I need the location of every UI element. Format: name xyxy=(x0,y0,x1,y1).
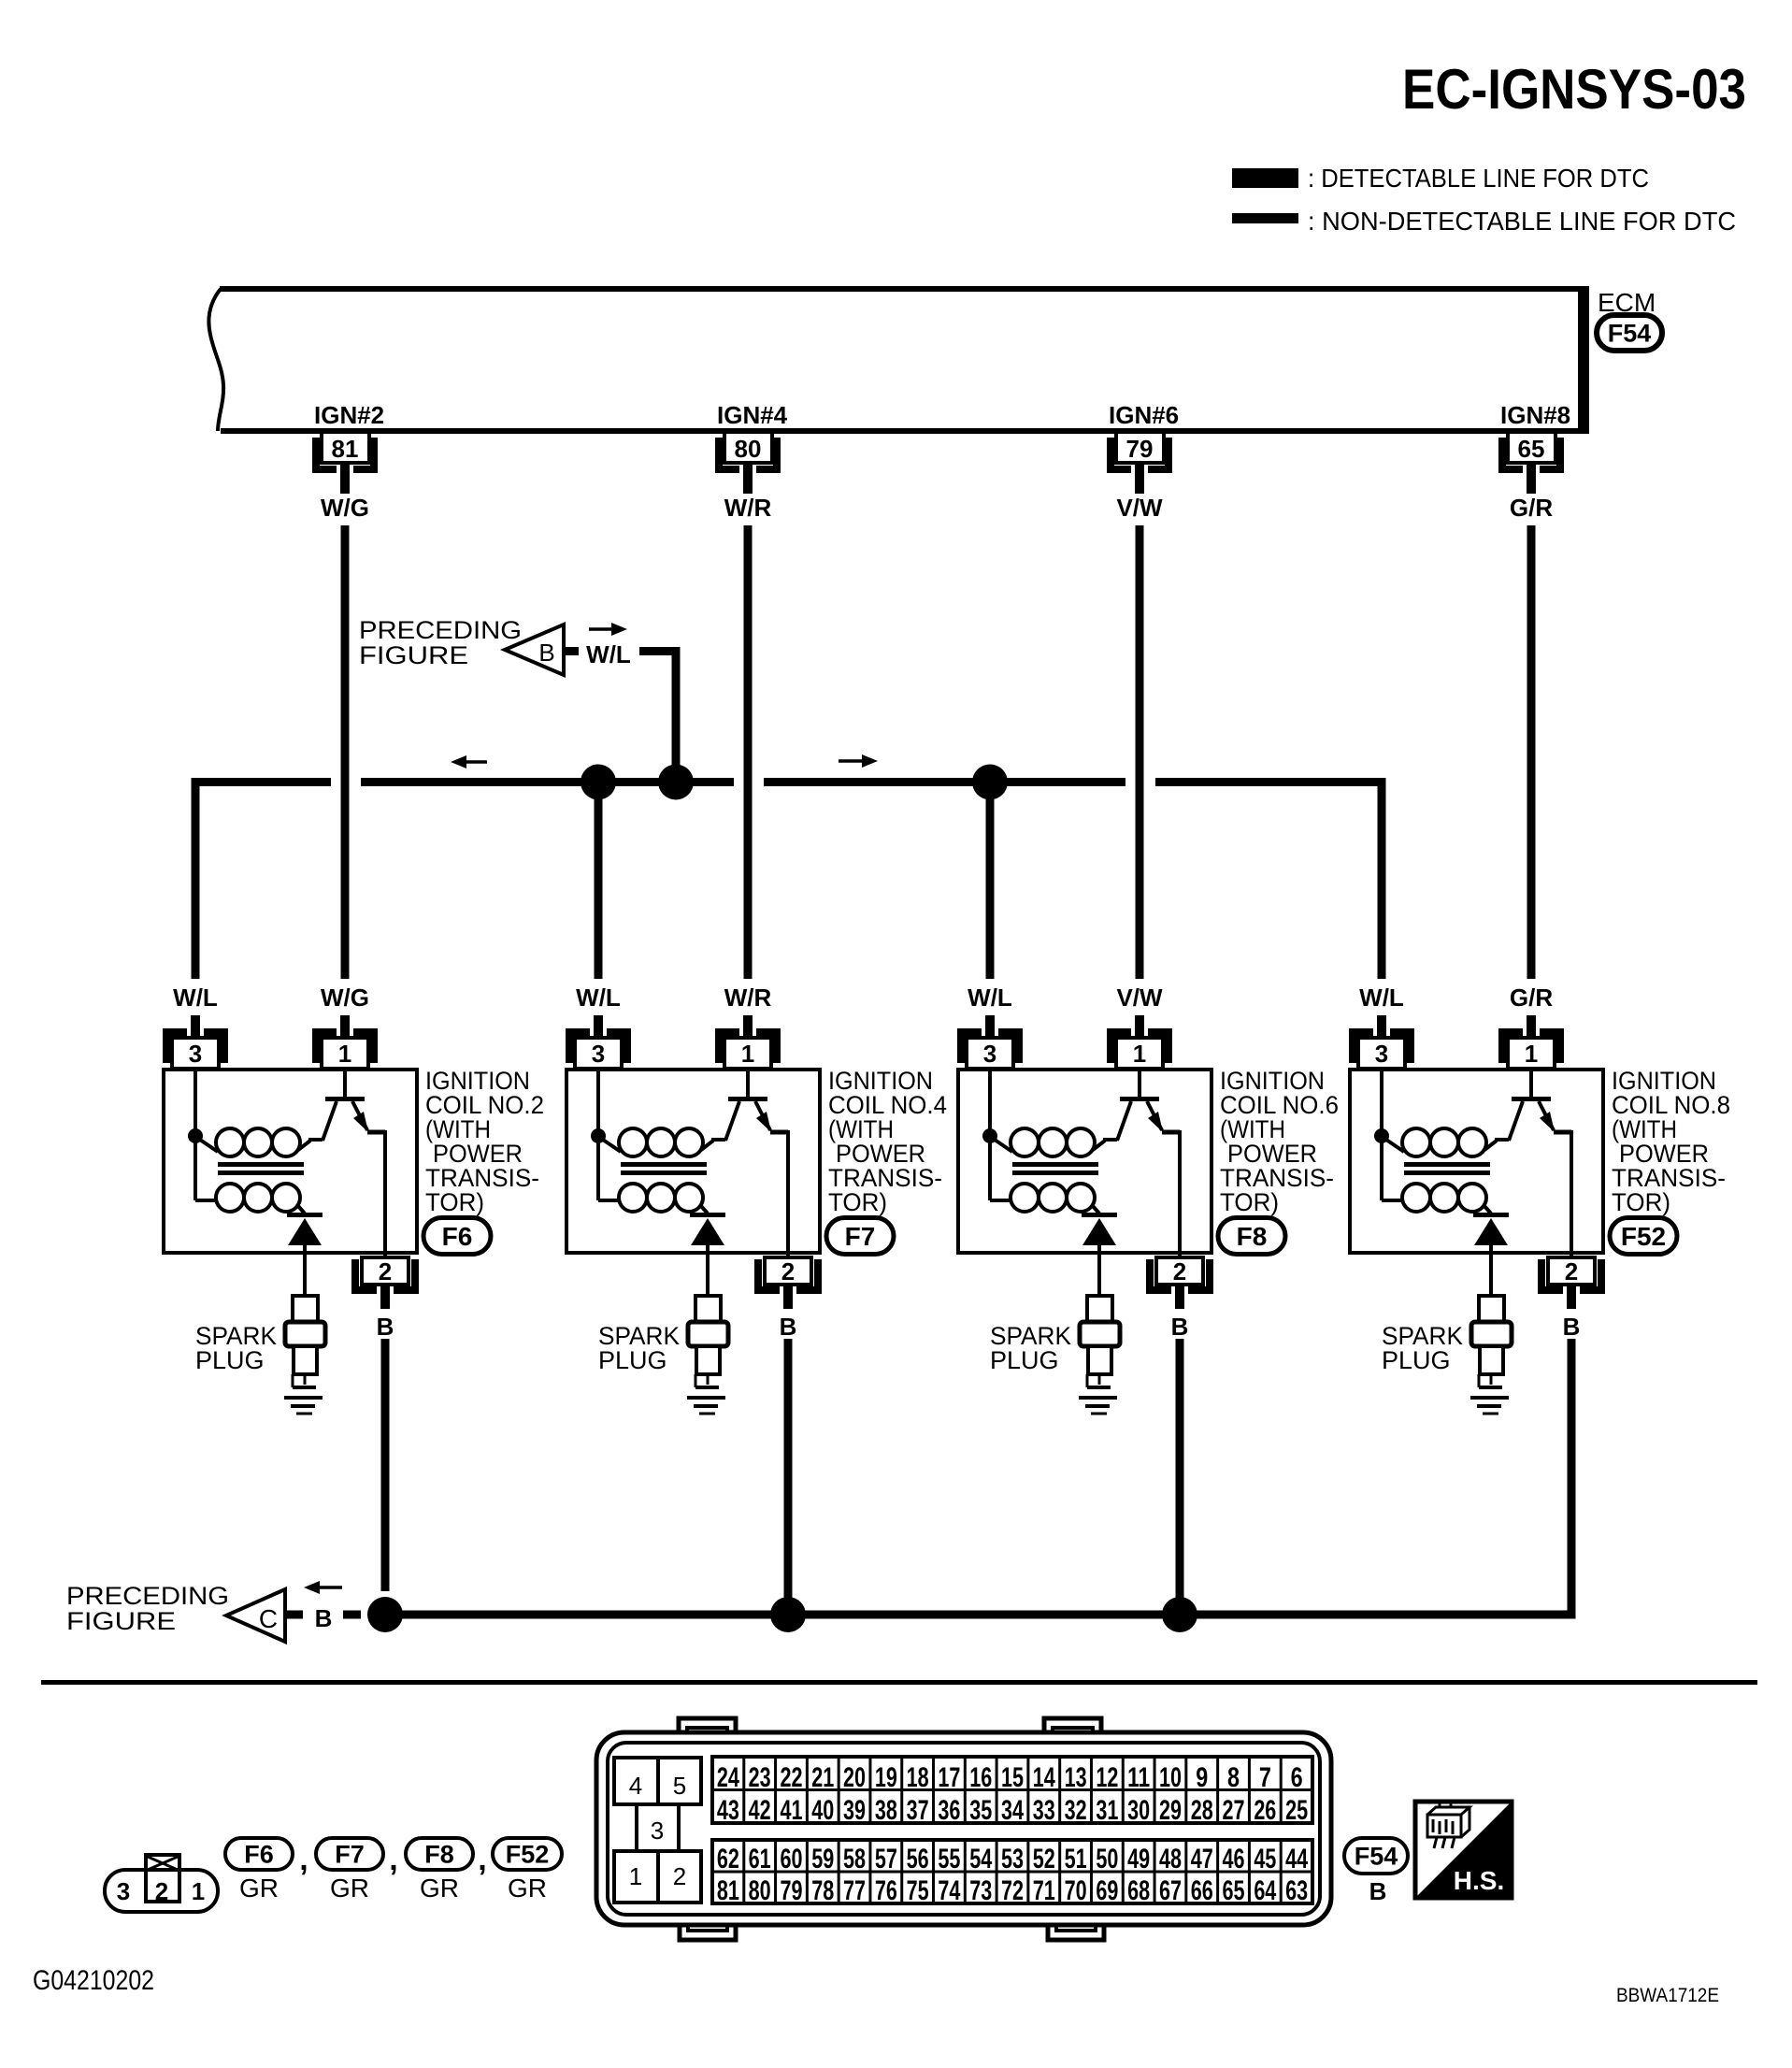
svg-text:65: 65 xyxy=(1518,435,1545,463)
svg-text:1: 1 xyxy=(741,1040,754,1068)
svg-text:2: 2 xyxy=(155,1877,168,1905)
svg-text:14: 14 xyxy=(1033,1762,1055,1793)
svg-text:IGN#4: IGN#4 xyxy=(717,401,788,429)
svg-text:GR: GR xyxy=(330,1874,369,1903)
svg-text:3: 3 xyxy=(117,1877,130,1905)
svg-text:20: 20 xyxy=(843,1762,866,1793)
svg-text:4: 4 xyxy=(629,1772,642,1800)
svg-text:38: 38 xyxy=(875,1795,897,1826)
svg-text:48: 48 xyxy=(1159,1844,1182,1874)
svg-text:BBWA1712E: BBWA1712E xyxy=(1616,1985,1719,2006)
svg-text:F6: F6 xyxy=(244,1841,274,1869)
svg-text:FIGURE: FIGURE xyxy=(359,641,468,669)
svg-text:B: B xyxy=(315,1604,333,1632)
svg-text:61: 61 xyxy=(749,1844,771,1874)
svg-text:57: 57 xyxy=(875,1844,897,1874)
svg-text:G/R: G/R xyxy=(1510,494,1553,522)
svg-text:23: 23 xyxy=(749,1762,771,1793)
svg-text:12: 12 xyxy=(1096,1762,1118,1793)
svg-text:56: 56 xyxy=(907,1844,929,1874)
svg-text:F8: F8 xyxy=(424,1841,454,1869)
svg-text:B: B xyxy=(1369,1877,1387,1905)
svg-text:33: 33 xyxy=(1033,1795,1055,1826)
svg-text:1: 1 xyxy=(338,1040,351,1068)
svg-text:37: 37 xyxy=(907,1795,929,1826)
svg-text:50: 50 xyxy=(1096,1844,1118,1874)
svg-text:79: 79 xyxy=(780,1875,802,1906)
svg-text:21: 21 xyxy=(811,1762,834,1793)
svg-text:F7: F7 xyxy=(845,1222,876,1251)
svg-text:TOR): TOR) xyxy=(1612,1188,1670,1216)
svg-text:IGN#6: IGN#6 xyxy=(1109,401,1179,429)
svg-text:H.S.: H.S. xyxy=(1454,1866,1504,1895)
svg-text:PLUG: PLUG xyxy=(195,1346,265,1374)
svg-text:66: 66 xyxy=(1191,1875,1213,1906)
svg-text:F52: F52 xyxy=(1621,1222,1666,1251)
svg-text:60: 60 xyxy=(780,1844,802,1874)
svg-text:3: 3 xyxy=(1375,1040,1388,1068)
svg-text:PRECEDING: PRECEDING xyxy=(66,1582,229,1610)
svg-text:3: 3 xyxy=(189,1040,202,1068)
svg-text:40: 40 xyxy=(811,1795,834,1826)
svg-text:F6: F6 xyxy=(442,1222,473,1251)
svg-text:78: 78 xyxy=(811,1875,834,1906)
svg-text:62: 62 xyxy=(717,1844,739,1874)
svg-text:45: 45 xyxy=(1254,1844,1276,1874)
svg-text:22: 22 xyxy=(780,1762,802,1793)
svg-text:W/L: W/L xyxy=(1359,984,1404,1012)
svg-text:53: 53 xyxy=(1001,1844,1024,1874)
svg-text:42: 42 xyxy=(749,1795,771,1826)
svg-text:1: 1 xyxy=(192,1877,205,1905)
svg-text:B: B xyxy=(780,1313,797,1341)
svg-text:PRECEDING: PRECEDING xyxy=(359,616,522,644)
svg-text:F52: F52 xyxy=(506,1841,550,1869)
svg-text:TOR): TOR) xyxy=(828,1188,887,1216)
svg-text:52: 52 xyxy=(1033,1844,1055,1874)
svg-text:C: C xyxy=(259,1604,278,1633)
svg-text:17: 17 xyxy=(938,1762,960,1793)
svg-text:47: 47 xyxy=(1191,1844,1213,1874)
svg-text:68: 68 xyxy=(1127,1875,1150,1906)
svg-text:11: 11 xyxy=(1127,1762,1150,1793)
svg-text:13: 13 xyxy=(1065,1762,1087,1793)
svg-text:70: 70 xyxy=(1065,1875,1087,1906)
svg-text:EC-IGNSYS-03: EC-IGNSYS-03 xyxy=(1402,58,1746,121)
svg-text:V/W: V/W xyxy=(1116,984,1163,1012)
svg-text:V/W: V/W xyxy=(1116,494,1163,522)
svg-text:5: 5 xyxy=(673,1772,686,1800)
svg-text:77: 77 xyxy=(843,1875,866,1906)
svg-text:30: 30 xyxy=(1127,1795,1150,1826)
svg-text:58: 58 xyxy=(843,1844,866,1874)
svg-text:1: 1 xyxy=(629,1862,642,1890)
svg-text:: DETECTABLE LINE FOR DTC: : DETECTABLE LINE FOR DTC xyxy=(1308,164,1649,193)
svg-text:76: 76 xyxy=(875,1875,897,1906)
svg-text:GR: GR xyxy=(508,1874,547,1903)
svg-text:10: 10 xyxy=(1159,1762,1182,1793)
svg-text:24: 24 xyxy=(717,1762,739,1793)
svg-text:80: 80 xyxy=(749,1875,771,1906)
svg-text:,: , xyxy=(389,1842,397,1877)
svg-text:39: 39 xyxy=(843,1795,866,1826)
svg-text:PLUG: PLUG xyxy=(598,1346,667,1374)
svg-text:29: 29 xyxy=(1159,1795,1182,1826)
svg-text:: NON-DETECTABLE LINE FOR DTC: : NON-DETECTABLE LINE FOR DTC xyxy=(1308,207,1736,236)
svg-text:54: 54 xyxy=(969,1844,992,1874)
svg-text:73: 73 xyxy=(969,1875,992,1906)
svg-text:TOR): TOR) xyxy=(425,1188,484,1216)
svg-text:16: 16 xyxy=(969,1762,992,1793)
svg-text:W/G: W/G xyxy=(321,984,369,1012)
svg-text:18: 18 xyxy=(907,1762,929,1793)
svg-text:19: 19 xyxy=(875,1762,897,1793)
svg-text:31: 31 xyxy=(1096,1795,1118,1826)
svg-text:GR: GR xyxy=(420,1874,459,1903)
svg-text:44: 44 xyxy=(1285,1844,1308,1874)
svg-text:32: 32 xyxy=(1065,1795,1087,1826)
svg-text:B: B xyxy=(377,1313,394,1341)
svg-text:75: 75 xyxy=(907,1875,929,1906)
svg-text:F54: F54 xyxy=(1608,320,1652,348)
svg-text:F8: F8 xyxy=(1237,1222,1268,1251)
svg-text:26: 26 xyxy=(1254,1795,1276,1826)
svg-text:79: 79 xyxy=(1126,435,1154,463)
svg-text:W/L: W/L xyxy=(968,984,1012,1012)
svg-text:72: 72 xyxy=(1001,1875,1024,1906)
svg-text:W/G: W/G xyxy=(321,494,369,522)
svg-text:80: 80 xyxy=(735,435,762,463)
svg-text:W/R: W/R xyxy=(724,494,772,522)
svg-text:F54: F54 xyxy=(1355,1843,1398,1871)
svg-text:B: B xyxy=(538,639,554,667)
svg-text:7: 7 xyxy=(1259,1762,1271,1793)
svg-text:3: 3 xyxy=(651,1817,664,1845)
svg-text:25: 25 xyxy=(1285,1795,1308,1826)
svg-text:1: 1 xyxy=(1525,1040,1538,1068)
svg-text:FIGURE: FIGURE xyxy=(66,1607,176,1635)
svg-text:3: 3 xyxy=(983,1040,996,1068)
svg-text:81: 81 xyxy=(332,435,359,463)
svg-text:51: 51 xyxy=(1065,1844,1087,1874)
svg-text:46: 46 xyxy=(1223,1844,1245,1874)
svg-text:G/R: G/R xyxy=(1510,984,1553,1012)
svg-text:3: 3 xyxy=(592,1040,605,1068)
svg-text:69: 69 xyxy=(1096,1875,1118,1906)
svg-text:,: , xyxy=(299,1842,308,1877)
svg-text:15: 15 xyxy=(1001,1762,1024,1793)
svg-text:IGN#8: IGN#8 xyxy=(1500,401,1570,429)
svg-text:63: 63 xyxy=(1285,1875,1308,1906)
svg-text:2: 2 xyxy=(379,1257,392,1285)
svg-text:2: 2 xyxy=(673,1862,686,1890)
svg-text:41: 41 xyxy=(780,1795,802,1826)
svg-text:W/R: W/R xyxy=(724,984,772,1012)
svg-text:35: 35 xyxy=(969,1795,992,1826)
svg-text:81: 81 xyxy=(717,1875,739,1906)
svg-text:34: 34 xyxy=(1001,1795,1024,1826)
svg-text:PLUG: PLUG xyxy=(1382,1346,1451,1374)
svg-text:W/L: W/L xyxy=(173,984,218,1012)
svg-text:8: 8 xyxy=(1227,1762,1240,1793)
svg-text:2: 2 xyxy=(781,1257,795,1285)
svg-text:2: 2 xyxy=(1173,1257,1186,1285)
svg-text:55: 55 xyxy=(938,1844,960,1874)
svg-text:64: 64 xyxy=(1254,1875,1276,1906)
svg-text:49: 49 xyxy=(1127,1844,1150,1874)
svg-text:2: 2 xyxy=(1565,1257,1578,1285)
svg-text:59: 59 xyxy=(811,1844,834,1874)
svg-text:IGN#2: IGN#2 xyxy=(314,401,384,429)
svg-text:9: 9 xyxy=(1196,1762,1208,1793)
svg-text:W/L: W/L xyxy=(576,984,621,1012)
svg-text:,: , xyxy=(478,1842,486,1877)
svg-text:1: 1 xyxy=(1133,1040,1146,1068)
svg-text:G04210202: G04210202 xyxy=(33,1965,154,1996)
svg-text:27: 27 xyxy=(1223,1795,1245,1826)
svg-text:6: 6 xyxy=(1291,1762,1303,1793)
svg-text:PLUG: PLUG xyxy=(990,1346,1059,1374)
svg-text:43: 43 xyxy=(717,1795,739,1826)
svg-text:67: 67 xyxy=(1159,1875,1182,1906)
svg-text:W/L: W/L xyxy=(586,640,631,668)
svg-text:36: 36 xyxy=(938,1795,960,1826)
svg-text:F7: F7 xyxy=(335,1841,365,1869)
svg-text:B: B xyxy=(1563,1313,1581,1341)
svg-text:28: 28 xyxy=(1191,1795,1213,1826)
svg-text:TOR): TOR) xyxy=(1220,1188,1279,1216)
svg-text:65: 65 xyxy=(1223,1875,1245,1906)
svg-text:GR: GR xyxy=(239,1874,279,1903)
svg-text:71: 71 xyxy=(1033,1875,1055,1906)
svg-text:B: B xyxy=(1171,1313,1189,1341)
svg-text:74: 74 xyxy=(938,1875,960,1906)
